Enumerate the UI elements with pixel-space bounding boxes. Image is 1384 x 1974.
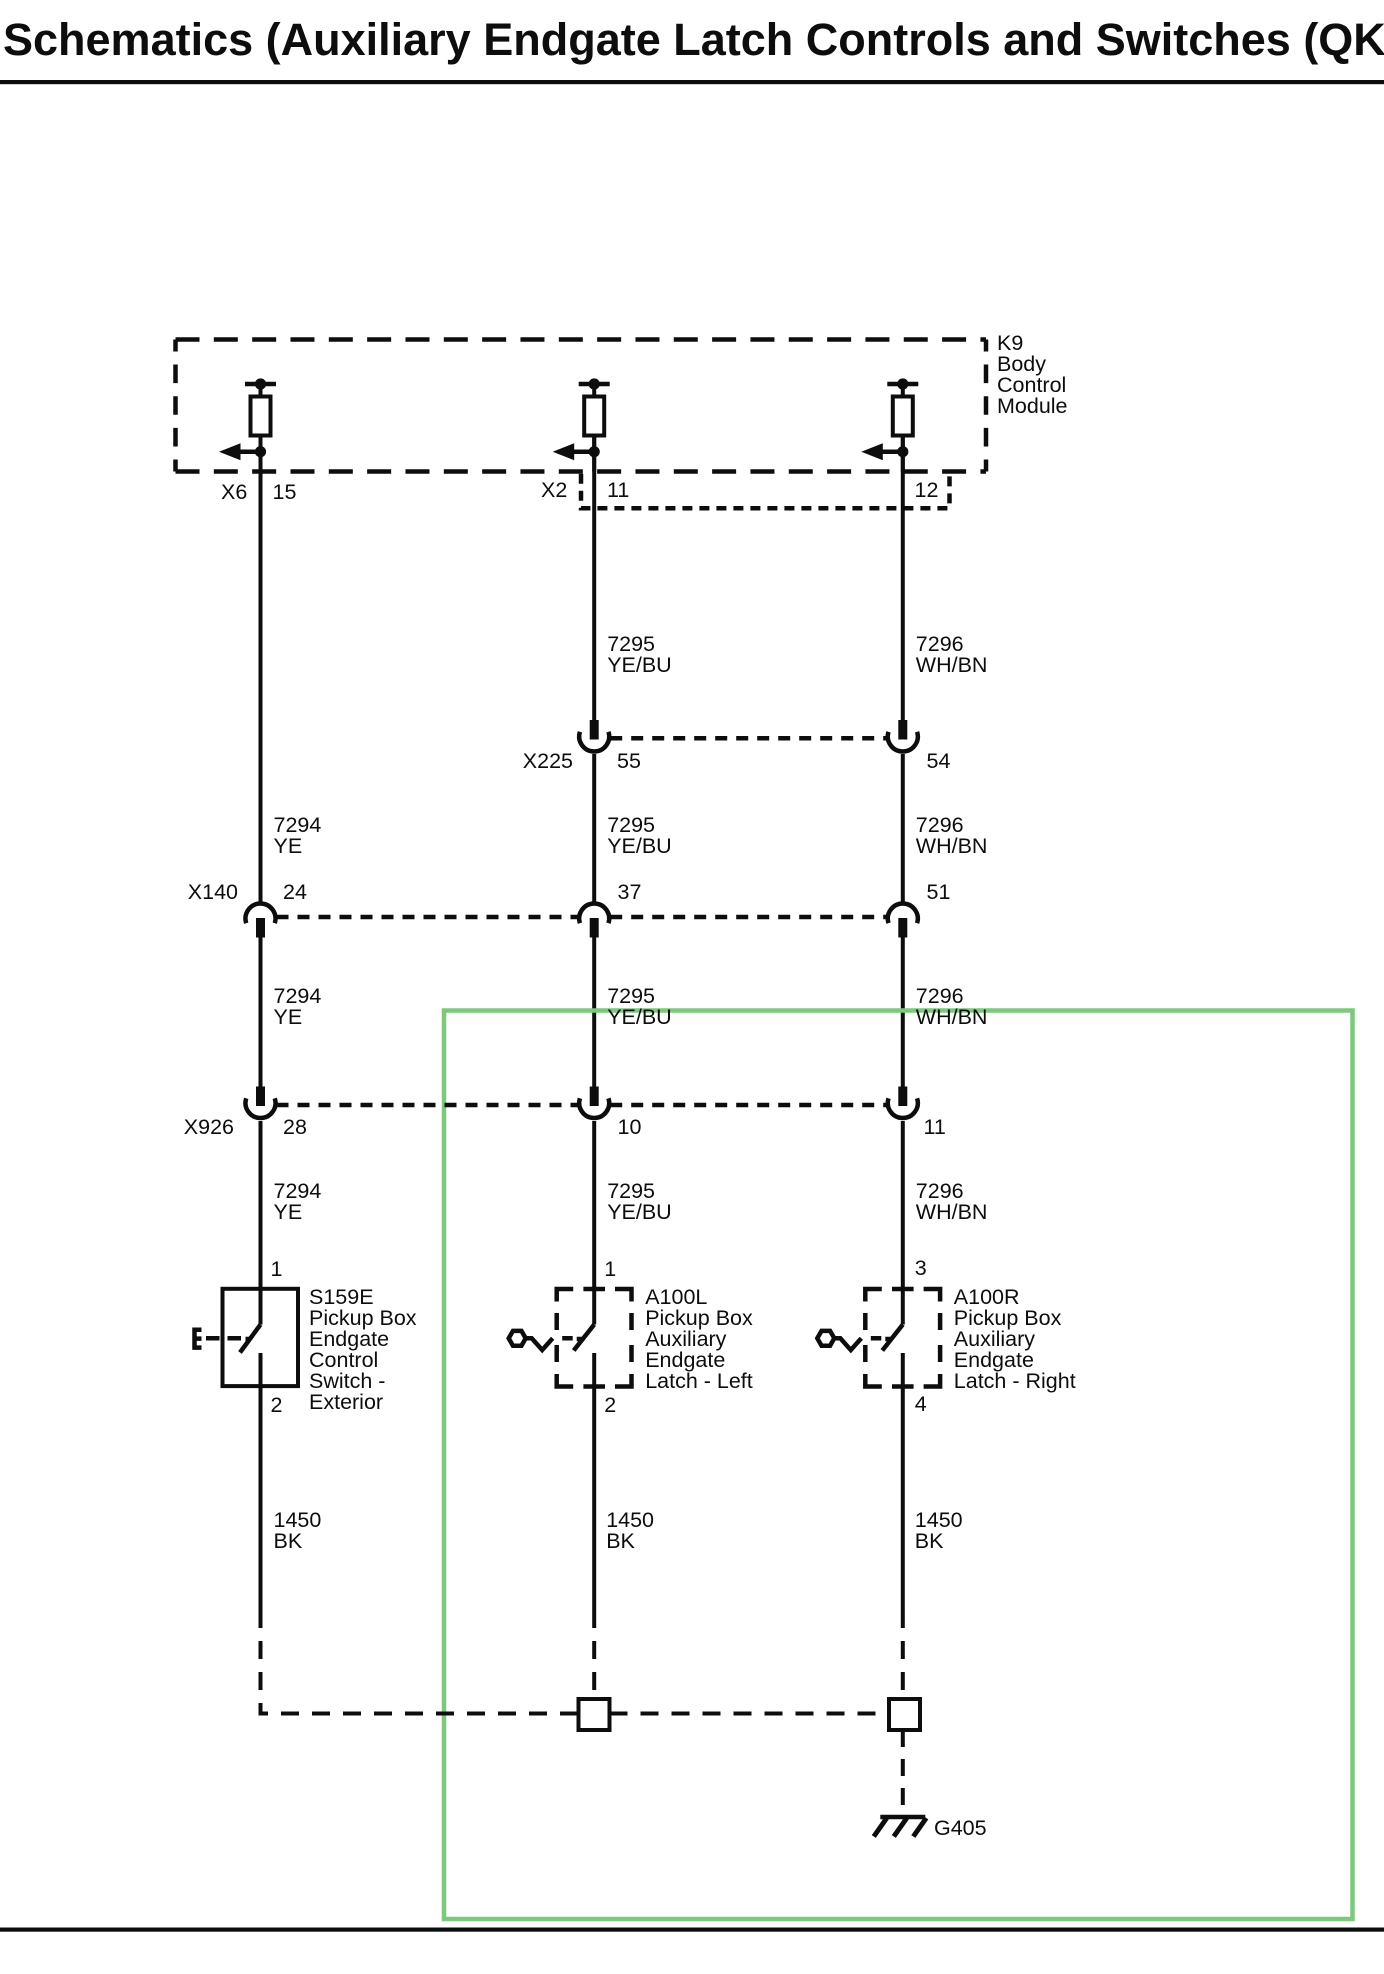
svg-text:WH/BN: WH/BN (916, 1005, 988, 1029)
connector X926 dashed tie line segment 1 (277, 1103, 579, 1108)
wire 1450 BK dashed ground bus between splices (610, 1712, 890, 1716)
svg-text:YE: YE (274, 834, 303, 858)
inline connector X140 pin 24 (wire 7294) (246, 904, 276, 938)
wire 7296 WH/BN: X225-54 down to X140-51 (901, 754, 905, 904)
inline connector X140 pin 37 (wire 7295) (579, 904, 609, 938)
connector X2 dotted grouping box (581, 474, 950, 509)
inline connector X225 pin 55 (wire 7295) (579, 720, 609, 751)
switch S159E actuator dashed linkage (206, 1336, 251, 1341)
wire 1450 BK from S159E pin 2 (259, 1353, 263, 1610)
BCM output driver with pull-up resistor, connector X6 pin 15 (219, 378, 276, 471)
svg-text:Latch - Right: Latch - Right (954, 1369, 1076, 1393)
wire 7296 WH/BN: BCM X2-12 down to X225-54 (901, 436, 905, 721)
inline connector X225 pin 54 (wire 7296) (888, 720, 918, 751)
svg-text:2: 2 (271, 1393, 283, 1417)
svg-text:54: 54 (927, 749, 951, 773)
wire 7295 YE/BU: X926-10 down to A100L pin 1 (592, 1121, 596, 1325)
ground splice connector (left) (579, 1699, 610, 1730)
switch S159E blade contact (240, 1325, 261, 1353)
svg-text:1: 1 (271, 1257, 283, 1281)
wire 7295 YE/BU: X140-37 down to X926-10 (592, 937, 596, 1087)
svg-text:YE: YE (274, 1005, 303, 1029)
bottom horizontal rule (0, 1928, 1384, 1932)
svg-text:Module: Module (997, 394, 1068, 418)
svg-text:3: 3 (915, 1256, 927, 1280)
inline connector X140 pin 51 (wire 7296) (888, 904, 918, 938)
inline connector X926 pin 10 (wire 7295) (579, 1087, 609, 1118)
svg-text:BK: BK (274, 1529, 303, 1553)
svg-text:YE/BU: YE/BU (607, 1200, 672, 1224)
svg-text:X926: X926 (184, 1115, 234, 1139)
svg-text:Exterior: Exterior (309, 1390, 383, 1414)
connector X140 dashed tie line segment 2 (610, 915, 887, 920)
wire 7295 YE/BU: BCM X2-11 down to X225-55 (592, 436, 596, 721)
ground splice connector (right) (889, 1699, 920, 1730)
svg-text:11: 11 (924, 1115, 946, 1139)
wire 7296 WH/BN: X140-51 down to X926-11 (901, 937, 905, 1087)
inline connector X926 pin 28 (wire 7294) (246, 1087, 276, 1118)
svg-text:YE/BU: YE/BU (607, 834, 672, 858)
wire 1450 BK dashed segment A100L to splice (592, 1610, 596, 1699)
svg-text:12: 12 (915, 478, 939, 502)
connector X140 dashed tie line segment 1 (277, 915, 579, 920)
svg-text:Latch - Left: Latch - Left (645, 1369, 753, 1393)
BCM output driver with pull-up resistor, connector X2 pin 12 (861, 378, 918, 471)
svg-text:BK: BK (915, 1529, 944, 1553)
latch switch A100R Pickup Box Auxiliary Endgate Latch - Right (817, 1289, 940, 1387)
connector X926 dashed tie line segment 2 (610, 1103, 887, 1108)
ground G405 symbol (874, 1817, 927, 1837)
svg-text:2: 2 (604, 1393, 616, 1417)
wire 7294 YE: X926-28 down to S159E pin 1 (259, 1121, 263, 1325)
svg-text:24: 24 (283, 880, 307, 904)
wire 1450 BK dashed segment S159E to ground bus (261, 1610, 579, 1714)
svg-text:28: 28 (283, 1115, 307, 1139)
wire 7296 WH/BN: X926-11 down to A100R pin 3 (901, 1121, 905, 1325)
svg-text:51: 51 (927, 880, 951, 904)
svg-text:YE/BU: YE/BU (607, 653, 672, 677)
inline connector X926 pin 11 (wire 7296) (888, 1087, 918, 1118)
svg-text:WH/BN: WH/BN (916, 834, 988, 858)
svg-text:55: 55 (617, 749, 641, 773)
svg-text:X2: X2 (541, 478, 567, 502)
wire 1450 BK dashed segment A100R to splice (901, 1610, 905, 1699)
BCM output driver with pull-up resistor, connector X2 pin 11 (553, 378, 610, 471)
wire 1450 BK from A100R pin 4 (901, 1353, 905, 1610)
title horizontal rule (0, 80, 1384, 84)
svg-text:BK: BK (606, 1529, 635, 1553)
svg-text:4: 4 (915, 1392, 927, 1416)
latch switch A100L Pickup Box Auxiliary Endgate Latch - Left (509, 1289, 632, 1387)
connector X225 dashed tie line (610, 736, 887, 741)
svg-text:X6: X6 (221, 480, 247, 504)
switch S159E manual actuator E symbol (195, 1330, 202, 1348)
switch S159E solid outline box (223, 1289, 299, 1386)
svg-text:G405: G405 (934, 1816, 987, 1840)
wire 1450 BK dashed segment splice to ground G405 (901, 1730, 905, 1818)
module K9 Body Control Module dashed outline box (176, 340, 987, 472)
svg-text:WH/BN: WH/BN (916, 1200, 988, 1224)
svg-text:Schematics (Auxiliary Endgate: Schematics (Auxiliary Endgate Latch Cont… (3, 14, 1384, 65)
svg-text:15: 15 (273, 480, 297, 504)
green highlight rectangle (444, 1011, 1353, 1920)
wire 7294 YE: X140-24 down to X926-28 (259, 937, 263, 1087)
svg-text:X140: X140 (188, 880, 238, 904)
wire 1450 BK from A100L pin 2 (592, 1353, 596, 1610)
svg-text:YE: YE (274, 1200, 303, 1224)
svg-text:1: 1 (604, 1257, 616, 1281)
svg-text:11: 11 (607, 478, 629, 502)
wire 7294 YE: BCM X6-15 down to X140-24 (259, 436, 263, 905)
wire 7295 YE/BU: X225-55 down to X140-37 (592, 754, 596, 904)
svg-text:37: 37 (618, 880, 642, 904)
svg-text:X225: X225 (523, 749, 573, 773)
svg-text:WH/BN: WH/BN (916, 653, 988, 677)
svg-text:YE/BU: YE/BU (607, 1005, 672, 1029)
svg-text:10: 10 (618, 1115, 642, 1139)
